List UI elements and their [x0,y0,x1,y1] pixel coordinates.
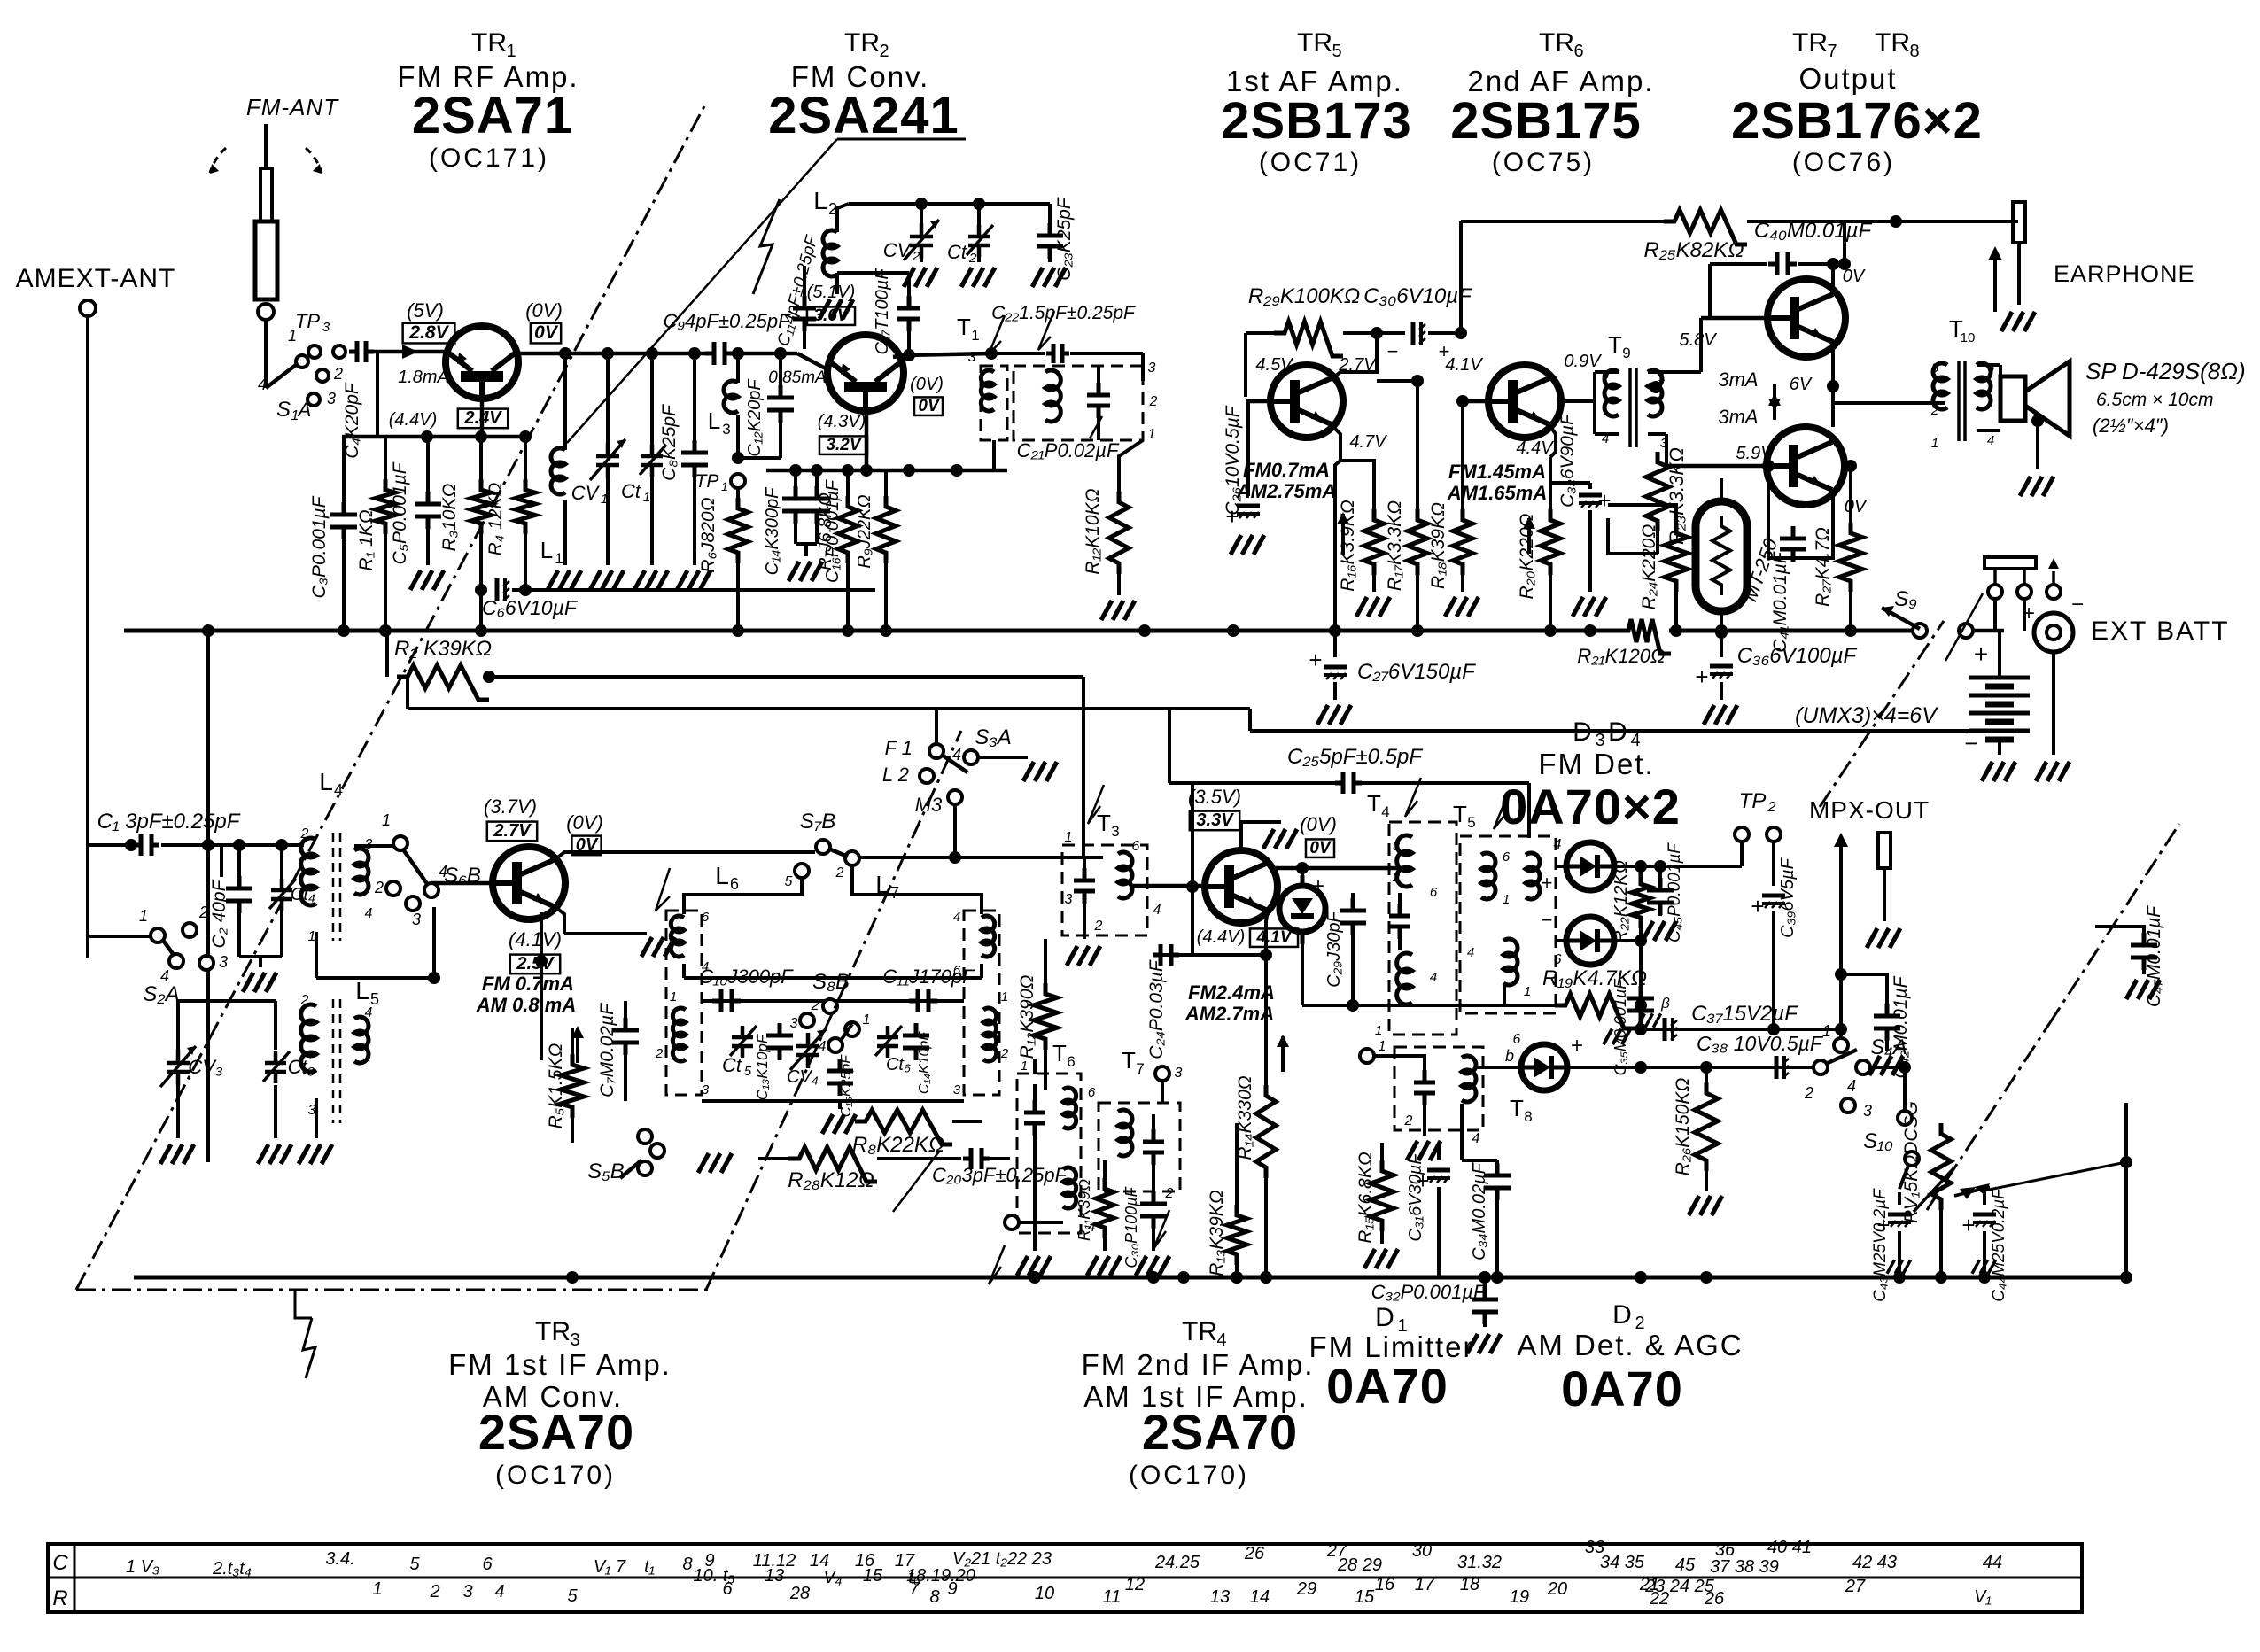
svg-text:L: L [319,768,333,795]
wire TR4 emitter [1266,911,1268,955]
svg-text:5: 5 [1332,42,1341,61]
svg-text:2SB173: 2SB173 [1221,92,1412,150]
svg-text:3.3V: 3.3V [1196,810,1234,830]
svg-text:S₆B: S₆B [444,864,481,888]
svg-text:F 1: F 1 [885,737,913,759]
svg-text:7: 7 [1827,42,1837,61]
svg-text:7: 7 [909,1579,920,1599]
svg-text:C₁₄K300pF: C₁₄K300pF [763,486,782,576]
L4 primary coil [301,838,316,905]
wire CV3 Ct3 tops [131,1000,276,1002]
vertical drop right of rails [1082,677,1085,857]
svg-text:1: 1 [643,490,650,505]
T7 coil [1118,1110,1132,1156]
svg-text:FM 1st IF Amp.: FM 1st IF Amp. [448,1348,672,1381]
svg-text:5: 5 [1467,814,1475,831]
svg-text:T: T [957,314,971,340]
capacitor C3 P0.001uF [342,437,346,508]
board outline dash-dot bottom [76,1289,709,1291]
svg-text:3: 3 [1393,839,1401,854]
svg-text:37 38 39: 37 38 39 [1710,1557,1779,1577]
bottom bus wire [134,1276,2126,1280]
svg-text:8: 8 [682,1555,692,1574]
bottom bus dots [566,1271,579,1284]
collector rail right of TR1 [518,352,708,356]
capacitor C4 K20pF [349,341,374,362]
wire C25 right down to T5 [1527,783,1531,838]
resistor R27 K4.7 [1850,466,1852,530]
voltage 3.3V boxed [1190,811,1239,831]
svg-text:3: 3 [1931,361,1939,376]
svg-text:0.85mA: 0.85mA [768,368,826,387]
svg-text:4: 4 [258,376,267,393]
wire C2 Ct4 join [239,955,282,958]
ground R16 [1356,597,1390,617]
resistor R2 K39K [385,631,389,677]
capacitor C1 3pF [88,843,131,847]
svg-text:S₁₀: S₁₀ [1863,1129,1893,1153]
inductor L3 [736,353,740,383]
wire antenna to S1A [264,320,268,388]
svg-text:4: 4 [365,906,373,921]
switch S6B [393,836,408,850]
svg-text:26: 26 [1704,1589,1725,1609]
wire D1 top [1301,868,1304,886]
electrolytic C33 6V90uF [1588,483,1592,489]
svg-text:4: 4 [1847,1077,1856,1095]
capacitor C37 15V2uF [1665,1018,1677,1041]
svg-text:4: 4 [1987,433,1994,448]
L5 core dashed [332,999,335,1123]
svg-text:13: 13 [1210,1587,1230,1607]
thermistor MT-250 [1696,501,1747,611]
resistor R21 K120 on bus [1619,624,1669,638]
svg-text:2: 2 [1767,800,1776,815]
svg-text:(0V): (0V) [1300,813,1337,835]
svg-text:R₁₃K39KΩ: R₁₃K39KΩ [1207,1190,1227,1276]
diode D2 AM det [1521,1044,1567,1090]
S3A lower contact [948,790,962,804]
svg-text:C₂₅5pF±0.5pF: C₂₅5pF±0.5pF [1287,745,1423,769]
junction dots on bus [338,624,350,637]
bottom rail of tuner [702,1099,964,1103]
wire T9 top to feedback [1895,221,1897,276]
svg-text:5.8V: 5.8V [1679,330,1717,350]
svg-text:+: + [1751,893,1764,919]
svg-text:−: − [1542,909,1553,931]
svg-text:2: 2 [655,1046,664,1061]
wire MPX node [1839,904,1843,1029]
T8 cap [1414,1070,1435,1105]
svg-text:2: 2 [333,365,343,383]
T3 cap [1074,868,1095,904]
svg-text:2: 2 [374,879,384,896]
T4 dashed box [1389,822,1456,1035]
svg-text:C₃₆6V100µF: C₃₆6V100µF [1737,644,1858,668]
wire TR8 base [1666,464,1765,469]
svg-text:2SB175: 2SB175 [1450,92,1642,150]
diode D4 [1566,917,1614,965]
capacitor C10 J300pF [712,989,741,1012]
wire battery minus [1998,740,2001,755]
transistor TR2 2SA241 [827,335,904,413]
wire D2 rail to S4A [1604,1066,1814,1069]
svg-text:2: 2 [835,865,844,880]
trim arrow T3 [1088,785,1104,824]
wire feedback rail top [1461,220,1664,223]
speaker [2000,376,2025,421]
wire TR4 top to ground hook [1241,822,1281,849]
svg-text:6: 6 [1067,1053,1075,1070]
svg-text:FM2.4mA: FM2.4mA [1188,981,1275,1004]
resistor R24 K220 [1675,518,1677,530]
svg-text:(4.3V): (4.3V) [818,412,866,431]
svg-text:8: 8 [1524,1108,1532,1125]
svg-text:13: 13 [765,1566,784,1586]
svg-text:(2½″×4″): (2½″×4″) [2093,415,2169,437]
svg-text:+: + [1309,647,1322,673]
svg-text:T: T [1097,810,1111,836]
svg-text:Ct: Ct [722,1054,742,1076]
svg-text:FM 0.7mA: FM 0.7mA [482,973,574,995]
ground battery [1982,762,2015,781]
left bottom vertical [133,845,135,1277]
resistor R19 K4.7K [1555,994,1635,1028]
svg-text:28 29: 28 29 [1337,1555,1382,1575]
trim arrow L6 [656,868,670,911]
electrolytic C26 10V0.5uF [1246,401,1250,496]
svg-text:3: 3 [1065,892,1073,907]
svg-text:C₁₃K10pF: C₁₃K10pF [754,1033,771,1100]
component location table [48,1544,2082,1612]
wire MT250 bottom [1720,611,1723,632]
svg-text:2.t₃t₄: 2.t₃t₄ [212,1559,252,1578]
electrolytic C44 M25V0.2uF [1983,1189,1986,1205]
svg-text:1: 1 [1021,1059,1028,1074]
ground CV1 [590,570,624,590]
svg-text:R₁ 1KΩ: R₁ 1KΩ [356,509,377,570]
wire rail to T1 [991,353,994,366]
svg-text:1: 1 [601,492,608,507]
arrow current TR6 [1523,516,1535,554]
TP1 terminal [731,474,745,488]
svg-text:4: 4 [1472,1131,1480,1146]
capacitor C34 M0.02uF [1462,1159,1497,1162]
svg-text:TR: TR [1539,28,1574,58]
svg-text:+: + [1571,1034,1583,1058]
svg-text:C₃P0.001µF: C₃P0.001µF [309,495,330,598]
svg-text:C₃₀P100µF: C₃₀P100µF [1122,1186,1140,1268]
svg-text:C₄₀M0.01µF: C₄₀M0.01µF [1754,219,1873,243]
svg-text:R₈K22KΩ: R₈K22KΩ [852,1133,944,1157]
L5 primary coil [301,1004,316,1072]
L4 core dashed [332,833,335,941]
ground C35b mark [1604,1029,1630,1045]
svg-text:15: 15 [863,1566,883,1586]
svg-text:1: 1 [139,907,148,925]
wire T3 to TR4 base [1117,902,1119,912]
variable capacitor CV2 [920,204,923,227]
svg-text:24.25: 24.25 [1154,1553,1200,1572]
L7 top coil [982,916,995,957]
svg-text:0.9V: 0.9V [1564,352,1602,371]
svg-text:2SA71: 2SA71 [412,87,573,144]
transformer T10 [1933,363,1947,409]
resistor R17 K3.3K [1408,509,1427,575]
T8 terminal pin1 [1360,1049,1374,1063]
svg-text:R₂₆K150KΩ: R₂₆K150KΩ [1673,1078,1693,1176]
wire right vertical to bus [2124,1103,2128,1276]
board outline dash right segment [2049,824,2179,1024]
voltage 2.5V boxed [510,955,560,974]
T7 pin3 terminal [1155,1066,1169,1081]
svg-text:22: 22 [1649,1589,1669,1609]
wire TR5 emitter down [1332,425,1340,461]
trim arrow T1 [989,315,1005,354]
bias rail 2.4V under TR1 [342,435,528,439]
svg-text:2: 2 [968,251,977,266]
ground C23 [1032,268,1066,287]
svg-text:R₂ K39KΩ: R₂ K39KΩ [394,637,492,661]
board outline right horizontal [1628,1210,1927,1240]
svg-text:EARPHONE: EARPHONE [2054,260,2195,287]
resistor R6 J820 [736,488,740,498]
wire L5 bottom [315,1098,318,1138]
svg-text:A: A [297,399,312,421]
resistor RV1 5K DCSG [1931,1123,1951,1210]
svg-text:C₁₂K20pF: C₁₂K20pF [745,378,765,457]
wire L4 sec to S6B [354,843,393,880]
ground stub on MPX rail [1637,1013,1661,1027]
svg-text:2SA241: 2SA241 [768,87,959,144]
transistor TR1 2SA71 [446,326,518,400]
diode D3 [1566,842,1614,890]
svg-text:V₄: V₄ [823,1568,842,1587]
svg-text:TP: TP [695,471,719,492]
wire S7B 5 to L6 [684,878,802,914]
trimmer Ct4 [269,879,296,911]
svg-text:(OC76): (OC76) [1792,148,1895,177]
svg-text:+: + [1695,663,1708,690]
svg-text:3: 3 [462,1582,472,1602]
svg-text:3: 3 [219,953,228,971]
svg-text:V₂21 t₂22 23: V₂21 t₂22 23 [952,1549,1052,1569]
svg-text:AMEXT-ANT: AMEXT-ANT [16,264,176,293]
voltage 2.8V boxed [403,323,455,344]
wire AMEXT down [86,316,89,958]
trimmer Ct1 [650,353,654,446]
svg-text:4: 4 [1153,903,1161,918]
svg-text:C₇M0.02µF: C₇M0.02µF [597,1003,617,1097]
electrolytic C43 M25V0.2uF [1898,1192,1901,1205]
wire TR3 emitter [555,907,564,934]
svg-text:R₂₈K12Ω: R₂₈K12Ω [788,1168,874,1192]
wire TR5 emitter to bus [1335,461,1340,631]
TP2 terminals [1735,827,1749,842]
svg-text:L: L [813,187,827,214]
wire T2 sec out [1142,381,1144,403]
wire batt contacts down [1993,599,1997,631]
svg-text:1.8mA: 1.8mA [398,368,449,387]
ground C42 [1869,1056,1903,1075]
svg-text:S₃A: S₃A [975,725,1012,749]
wire TR6 collector to T9 [1561,399,1595,403]
svg-text:1: 1 [971,327,979,344]
wire T7 to rail [1153,1198,1154,1214]
svg-text:6: 6 [1503,849,1511,865]
ground C47 [2126,980,2160,999]
svg-text:L: L [540,537,553,563]
arrow current TR5 [1337,512,1349,555]
svg-text:4.7V: 4.7V [1349,432,1387,452]
antenna joint [258,304,274,320]
electrolytic C39 6V5uF [1772,842,1775,886]
ground ext batt [2036,762,2070,781]
svg-text:6: 6 [1513,1032,1521,1047]
svg-text:2: 2 [300,993,309,1008]
svg-text:2: 2 [429,1582,439,1602]
trimmer Ct6 [875,1026,902,1058]
svg-text:T: T [1367,790,1381,817]
svg-text:5: 5 [785,874,793,889]
wire S4A right [1870,1066,1905,1069]
AMEXT-ANT terminal [80,300,96,316]
ground Ct2 [961,268,995,287]
T4 top coil [1397,835,1412,887]
MPX plug [1878,833,1891,868]
ground C36 [1704,705,1737,725]
svg-text:C₃₁6V30µF: C₃₁6V30µF [1406,1152,1425,1242]
svg-text:3: 3 [968,350,976,365]
svg-text:+: + [2023,601,2035,625]
svg-text:C₂₉J30pF: C₂₉J30pF [1324,910,1344,987]
wire C30 right [1428,331,1461,335]
variable capacitor CV3 [177,958,179,1045]
ground C14 C16 [796,542,817,546]
ground C8 [677,570,711,590]
resistor R14 K330 [1256,1085,1276,1178]
wire TR1 emitter down to bias rail [480,400,485,437]
svg-text:29: 29 [1296,1579,1316,1599]
resistor R4 12K [524,437,527,479]
trimmer Ct2 [977,204,981,227]
lightning mark [753,199,780,294]
svg-text:1 V₃: 1 V₃ [126,1557,159,1577]
ground L2 bottom [835,282,839,294]
wire TR5 base [1246,397,1267,401]
L4 secondary coil [354,849,369,895]
ground R18 [1445,597,1479,617]
svg-text:(5.1V): (5.1V) [807,283,855,302]
svg-text:8: 8 [929,1587,939,1607]
svg-text:C₁₇T100µF: C₁₇T100µF [873,268,892,355]
svg-text:14: 14 [1250,1587,1270,1607]
wire R29 right to C30 [1343,331,1405,335]
wire D3 D4 connections [1556,865,1566,868]
wire C39 down [1772,911,1775,1029]
svg-text:31.32: 31.32 [1457,1553,1502,1572]
wire C6 line [512,588,875,592]
svg-text:19: 19 [1510,1587,1529,1607]
wire C34 [1496,1160,1498,1178]
wire T8 coil bottom [1460,1104,1464,1160]
ground C27 [1317,705,1351,725]
svg-text:S: S [276,398,291,422]
bias rail lower [408,707,1250,710]
svg-text:6V: 6V [1790,375,1813,394]
svg-text:D: D [1375,1303,1394,1332]
svg-text:6: 6 [1132,839,1140,854]
svg-text:3: 3 [1175,1066,1183,1081]
svg-text:L: L [708,407,720,434]
wire to S7B [623,850,815,854]
svg-text:R₂₇K4.7Ω: R₂₇K4.7Ω [1813,527,1833,607]
svg-text:(OC75): (OC75) [1492,148,1595,177]
trim arrow T5 [1494,790,1510,829]
wire T7 pin2 [1152,1178,1155,1198]
capacitor C8 K25pF [693,353,696,446]
wire L5 sec [353,1098,355,1116]
wire L4 bottom rail [315,921,317,978]
svg-text:R₁₇K3.3KΩ: R₁₇K3.3KΩ [1385,500,1405,591]
T3 dashed box [1062,845,1147,935]
svg-text:FM0.7mA: FM0.7mA [1243,459,1330,481]
T8 coil [1462,1056,1476,1102]
wire R24 top [1608,505,1676,523]
ground C26 [1231,535,1264,555]
wire L7 pin4 top [852,865,982,914]
ground C2 [259,957,262,967]
svg-text:R₁₂K390Ω: R₁₂K390Ω [1017,975,1037,1059]
svg-text:1: 1 [863,1012,871,1028]
ground speaker [2020,477,2054,496]
svg-text:AM Det. & AGC: AM Det. & AGC [1517,1329,1743,1361]
svg-text:2: 2 [811,998,819,1013]
svg-text:Ct: Ct [621,480,641,502]
resistor R25 K82K [1664,210,1747,244]
svg-text:CV₄: CV₄ [787,1067,819,1087]
electrolytic C36 6V100uF [1720,631,1723,657]
svg-text:2: 2 [198,904,208,921]
wire T10 primary [1945,402,1947,404]
svg-text:6: 6 [1602,368,1610,383]
wire top rail to earphone [1896,220,2018,223]
resistor R23 K3.3K [1657,394,1658,458]
svg-text:D: D [1612,1300,1632,1330]
capacitor C13 K10pF [766,1023,793,1060]
svg-text:C₁₁J170pF: C₁₁J170pF [882,966,975,988]
svg-text:4.1V: 4.1V [1445,355,1483,375]
svg-text:Output: Output [1798,62,1897,95]
svg-text:3: 3 [790,1016,798,1031]
emitter rail 3.2V [766,469,1007,473]
svg-text:3.4.: 3.4. [325,1549,354,1569]
svg-text:1: 1 [1524,984,1531,999]
wire TR7 base [1701,316,1766,321]
wire S3A to ground [978,756,1028,759]
wire T8 bottom ground [1423,1118,1426,1136]
svg-text:3: 3 [953,1082,961,1097]
svg-text:(OC170): (OC170) [495,1461,616,1490]
svg-text:R₁₁K39Ω: R₁₁K39Ω [1076,1179,1093,1241]
wire ext batt down [2052,652,2055,755]
svg-text:TP: TP [1739,789,1767,813]
svg-text:CV: CV [883,239,913,261]
svg-text:3: 3 [412,911,421,928]
capacitor C11 4pF 0.25pF [803,266,806,301]
svg-text:34 35: 34 35 [1600,1553,1645,1572]
resistor R3 10K [479,437,483,479]
